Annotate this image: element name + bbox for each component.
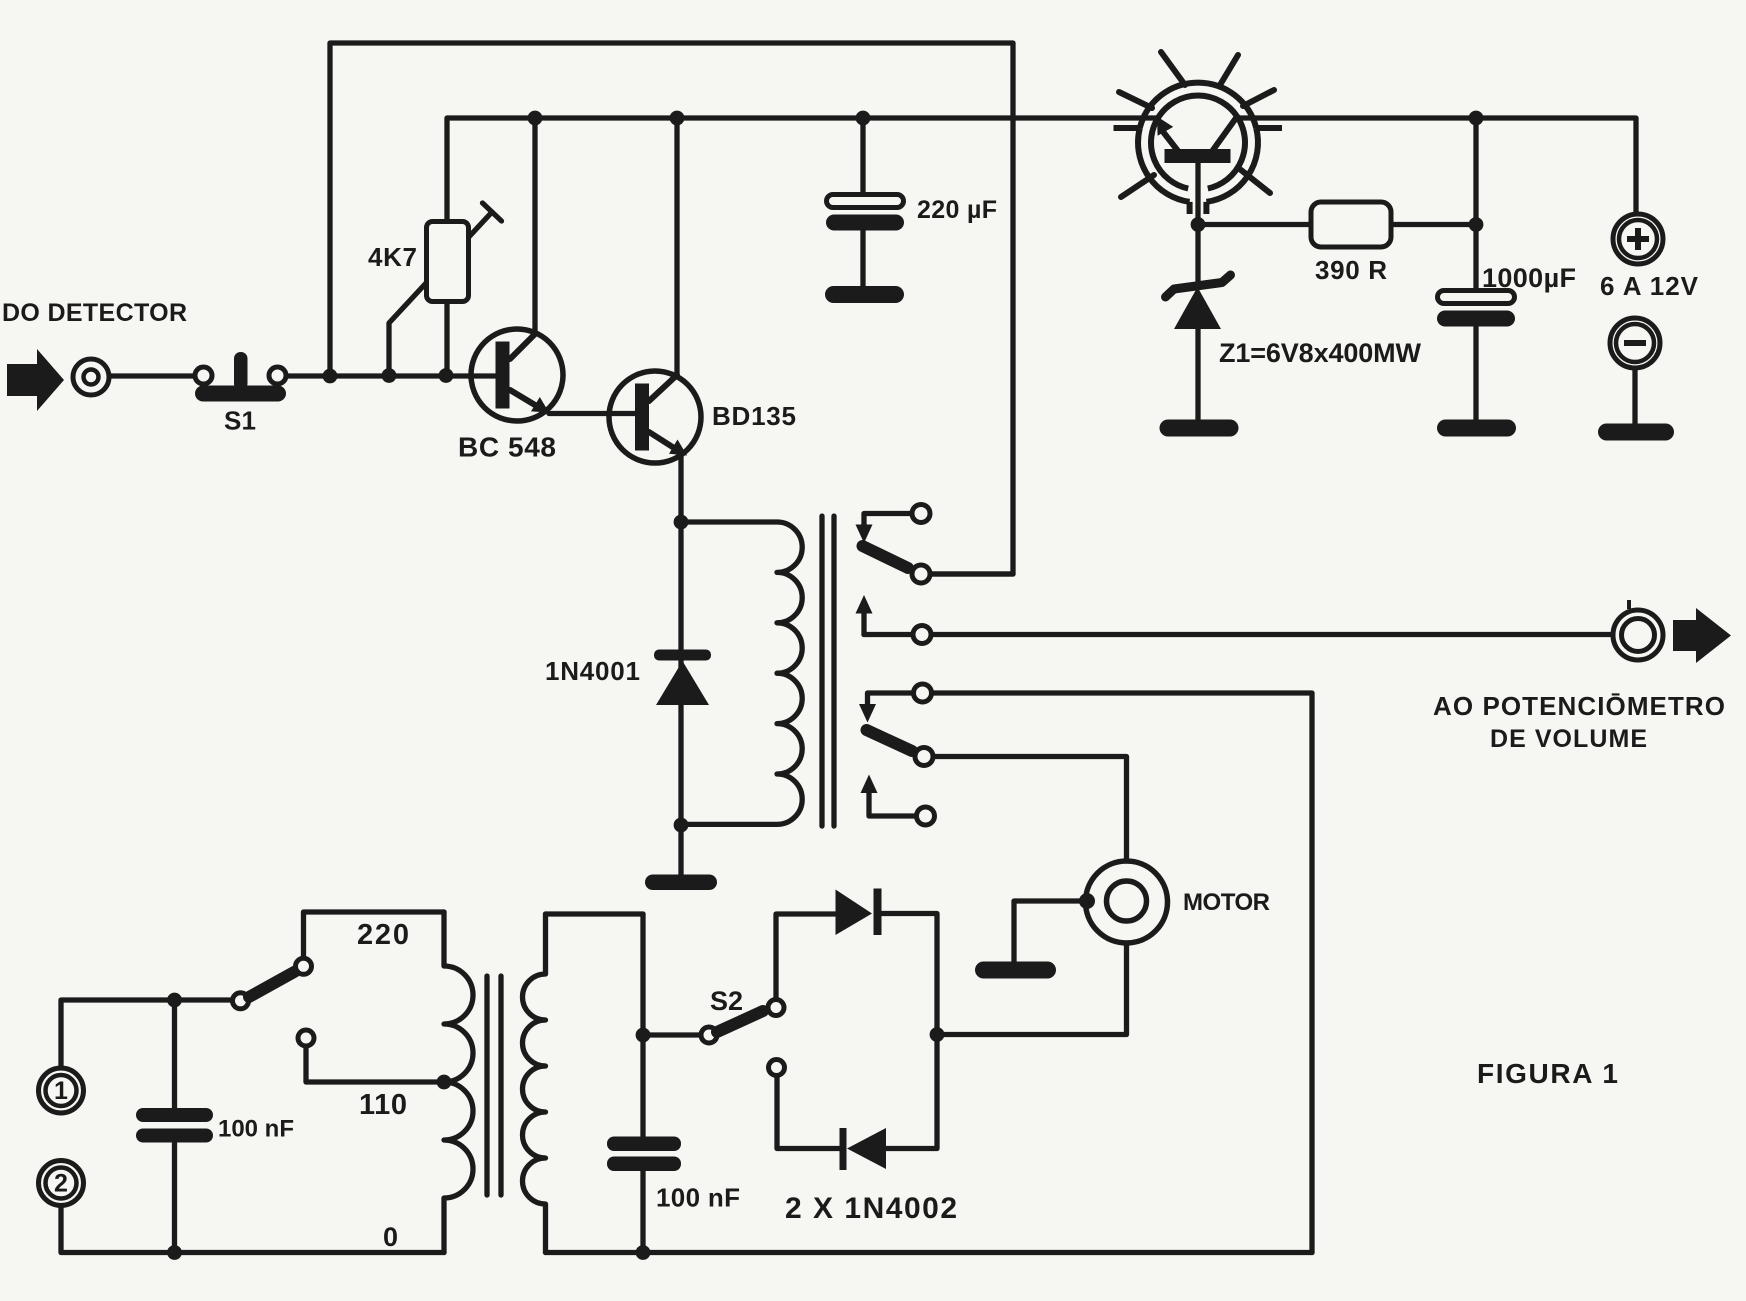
svg-text:DO DETECTOR: DO DETECTOR bbox=[2, 299, 187, 327]
svg-text:1000µF: 1000µF bbox=[1482, 263, 1576, 293]
svg-text:1N4001: 1N4001 bbox=[545, 656, 640, 686]
svg-text:110: 110 bbox=[359, 1089, 407, 1121]
svg-text:Z1=6V8x400MW: Z1=6V8x400MW bbox=[1219, 338, 1422, 368]
svg-text:S2: S2 bbox=[710, 986, 743, 1016]
svg-text:FIGURA 1: FIGURA 1 bbox=[1477, 1058, 1618, 1089]
svg-text:BD135: BD135 bbox=[712, 401, 796, 431]
svg-text:4K7: 4K7 bbox=[368, 242, 417, 272]
svg-text:BC 548: BC 548 bbox=[458, 432, 556, 463]
svg-text:100 nF: 100 nF bbox=[656, 1183, 740, 1213]
svg-text:AO POTENCIŌMETRO: AO POTENCIŌMETRO bbox=[1433, 691, 1725, 721]
svg-text:0: 0 bbox=[383, 1222, 398, 1252]
svg-text:2: 2 bbox=[54, 1170, 68, 1198]
svg-text:6 A 12V: 6 A 12V bbox=[1600, 271, 1699, 301]
svg-text:DE VOLUME: DE VOLUME bbox=[1490, 725, 1647, 753]
svg-text:220: 220 bbox=[357, 919, 409, 951]
svg-text:390 R: 390 R bbox=[1315, 255, 1387, 285]
svg-text:S1: S1 bbox=[224, 406, 256, 436]
svg-text:100 nF: 100 nF bbox=[218, 1116, 294, 1143]
svg-text:2 X 1N4002: 2 X 1N4002 bbox=[785, 1192, 957, 1225]
svg-text:220 µF: 220 µF bbox=[917, 196, 997, 224]
svg-text:1: 1 bbox=[54, 1077, 68, 1105]
svg-text:MOTOR: MOTOR bbox=[1183, 889, 1270, 916]
